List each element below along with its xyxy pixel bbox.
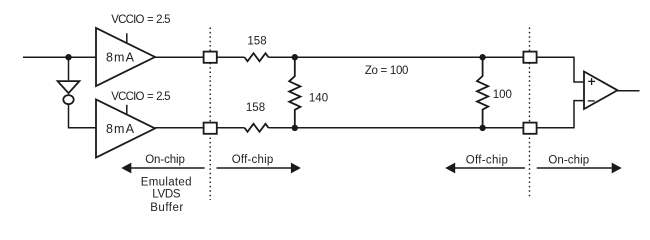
label U3 minus input — [588, 100, 595, 102]
wire W3 inverter to buffer B input — [69, 104, 97, 128]
svg-text:100: 100 — [493, 89, 512, 101]
label U3 plus input — [588, 78, 595, 85]
boundary chip edge right (dotted) — [529, 28, 531, 199]
wire W6 top transmission line — [269, 56, 524, 58]
node N4 bottom at R3 — [292, 125, 298, 131]
node N3 top at R4 — [479, 54, 485, 60]
svg-text:Emulated: Emulated — [141, 176, 192, 188]
resistor R4 100 (termination at receiver) — [477, 57, 488, 128]
wire W12 receiver output — [618, 90, 640, 92]
wire W9 pad to resistor R2 — [217, 127, 245, 129]
svg-text:140: 140 — [309, 92, 328, 104]
svg-text:On-chip: On-chip — [548, 154, 589, 166]
wire W1 top input — [23, 56, 96, 58]
wire W8 bottom buffer output to pad — [155, 127, 204, 129]
svg-text:VCCIO = 2.5: VCCIO = 2.5 — [111, 14, 170, 26]
pad P4 (bottom right package pin) — [523, 123, 536, 134]
svg-text:On-chip: On-chip — [145, 154, 185, 166]
wire W5 pad to resistor R1 — [217, 56, 245, 58]
node N5 bottom at R4 — [479, 125, 485, 131]
wire W10 bottom transmission line — [269, 127, 524, 129]
wire W2 junction to inverter — [68, 57, 70, 80]
pad P3 (top right package pin) — [523, 52, 536, 63]
svg-text:Buffer: Buffer — [150, 202, 183, 214]
svg-text:Off-chip: Off-chip — [466, 154, 508, 166]
resistor R2 158 (bottom series) — [245, 124, 269, 132]
svg-text:LVDS: LVDS — [152, 188, 181, 200]
svg-text:8mA: 8mA — [106, 122, 135, 136]
resistor R3 140 (differential termination at driver) — [289, 57, 300, 128]
pad P1 (top left package pin) — [204, 52, 217, 63]
wire W7 pad to receiver plus input — [537, 57, 584, 82]
arrow A3 off-chip right side — [445, 163, 525, 174]
svg-text:Zo = 100: Zo = 100 — [365, 65, 408, 77]
buffer U1A (top 8mA driver) — [96, 28, 155, 86]
arrow A1 on-chip left — [121, 163, 204, 174]
inverter U2 — [58, 81, 80, 104]
node N1 input junction — [65, 54, 71, 60]
node N2 top at R3 — [292, 54, 298, 60]
wire W11 pad to receiver minus input — [537, 101, 584, 128]
arrow A4 on-chip right side — [537, 163, 622, 174]
svg-text:158: 158 — [247, 36, 266, 48]
pad P2 (bottom left package pin) — [204, 123, 217, 134]
resistor R1 158 (top series) — [245, 53, 269, 61]
wire W4 top buffer output to pad — [155, 56, 204, 58]
svg-text:VCCIO = 2.5: VCCIO = 2.5 — [111, 91, 170, 103]
buffer U1B (bottom 8mA driver) — [96, 100, 155, 158]
boundary chip edge left (dotted) — [209, 28, 211, 201]
svg-text:Off-chip: Off-chip — [232, 154, 274, 166]
arrow A2 off-chip left side — [217, 163, 301, 174]
op-amp U3 (LVDS receiver) — [584, 72, 618, 110]
svg-text:158: 158 — [246, 102, 265, 114]
svg-text:8mA: 8mA — [106, 50, 135, 64]
